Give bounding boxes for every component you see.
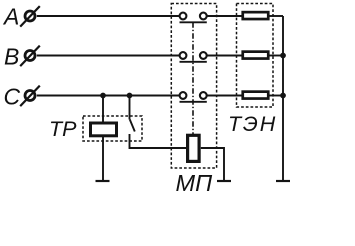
wire phase C left: [37, 95, 183, 97]
svg-text:ТР: ТР: [49, 117, 77, 141]
contact MP phase A: [180, 13, 207, 23]
phase terminal C: [20, 86, 40, 107]
ground (TP): [96, 180, 110, 182]
wire heater B to bus: [270, 55, 284, 57]
wire heater A to bus: [270, 15, 284, 17]
contact MP phase C: [180, 92, 207, 102]
wire phase C right: [203, 95, 241, 97]
phase terminal A: [20, 6, 40, 27]
heater TEN phase A: [243, 12, 269, 19]
wire phase A right: [203, 15, 241, 17]
contactor MP boundary (dashed box): [171, 4, 216, 169]
svg-text:С: С: [4, 83, 21, 109]
junction (bus C): [280, 93, 286, 99]
wire coil right: [201, 148, 224, 180]
wire phase B right: [203, 55, 241, 57]
wire phase B left: [37, 55, 183, 57]
junction (line C tap 2): [127, 93, 133, 99]
ground (bus): [276, 180, 290, 182]
wire TP heater drop: [102, 96, 104, 181]
svg-text:А: А: [2, 3, 19, 29]
mechanical linkage (dash-dot): [192, 22, 194, 134]
thermal relay TP boundary (dashed box): [83, 116, 142, 141]
coil MP: [188, 135, 200, 161]
heater box TEN boundary (dashed box): [237, 4, 274, 108]
heater element TP: [91, 123, 117, 136]
contact TP blade: [130, 120, 135, 132]
svg-text:В: В: [4, 44, 19, 70]
contact MP phase B: [180, 52, 207, 62]
svg-text:ТЭН: ТЭН: [228, 112, 277, 136]
svg-text:МП: МП: [176, 170, 214, 196]
ground (coil): [217, 180, 231, 182]
heater TEN phase C: [243, 92, 269, 99]
junction (line C tap 1): [100, 93, 106, 99]
phase terminal B: [20, 46, 40, 67]
heater TEN phase B: [243, 52, 269, 59]
wire heater C to bus: [270, 95, 284, 97]
wire TP contact upper: [129, 96, 131, 120]
junction (bus B): [280, 53, 286, 59]
wire coil left: [130, 134, 187, 148]
bus wire (heaters common): [282, 16, 284, 180]
wire phase A left: [37, 15, 183, 17]
